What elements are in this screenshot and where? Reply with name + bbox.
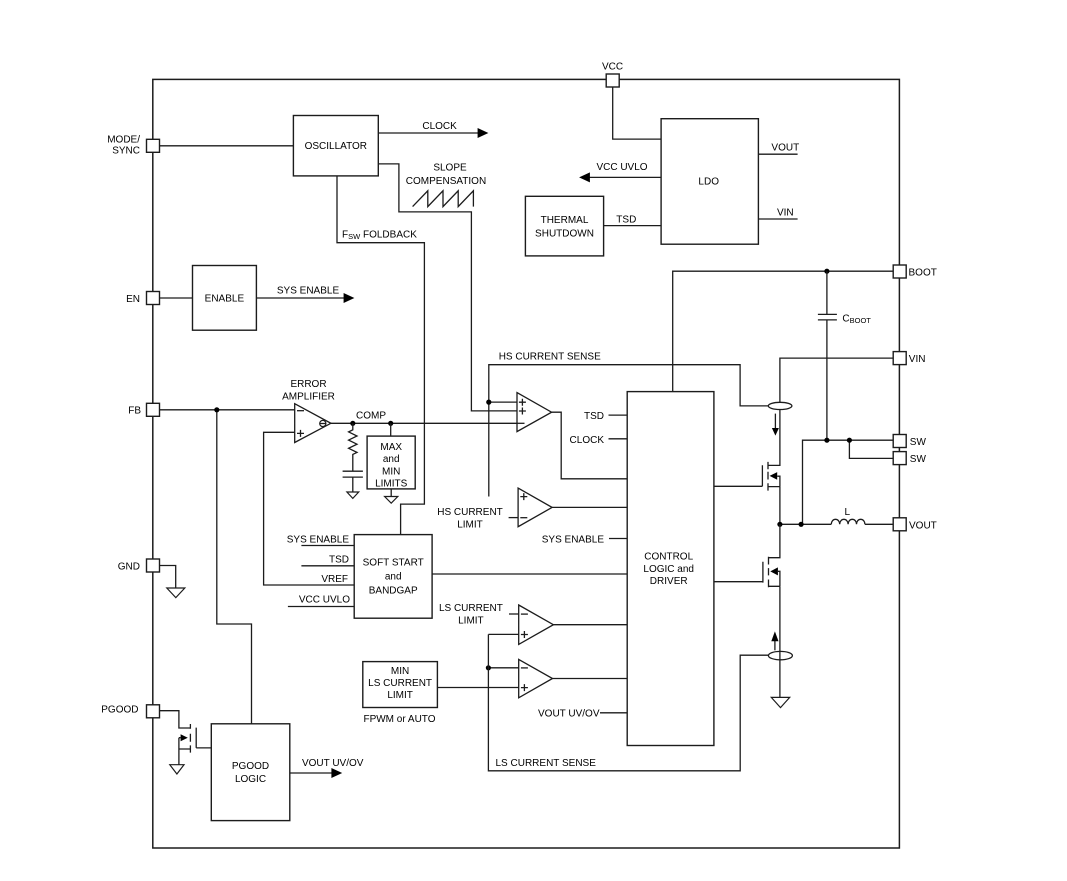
- svg-text:COMP: COMP: [356, 410, 386, 421]
- wire HS current limit minus stub: [509, 517, 518, 519]
- wire LDO VIN internal: [758, 218, 797, 220]
- svg-text:CLOCK: CLOCK: [570, 435, 605, 446]
- node SW line junction: [799, 522, 804, 527]
- inductor L: [831, 519, 865, 524]
- sawtooth slope waveform: [413, 191, 474, 207]
- node HS sense junction: [486, 400, 491, 405]
- svg-text:VOUT: VOUT: [771, 143, 799, 154]
- svg-text:LS CURRENT SENSE: LS CURRENT SENSE: [496, 758, 597, 769]
- ground max min limits: [385, 497, 398, 504]
- current sensor LS ellipse: [768, 651, 792, 659]
- svg-text:CONTROL: CONTROL: [644, 551, 693, 562]
- svg-text:SW: SW: [910, 454, 927, 465]
- current sensor HS ellipse: [768, 402, 792, 409]
- svg-text:SW: SW: [910, 437, 927, 448]
- pin VIN: [893, 352, 906, 365]
- pin BOOT: [893, 265, 906, 278]
- node BOOT Cboot junction: [824, 269, 829, 274]
- wire SYS ENABLE output: [256, 297, 344, 299]
- wire CLOCK output: [378, 132, 478, 134]
- pin VOUT: [893, 518, 906, 531]
- node FB junction: [214, 407, 219, 412]
- wire PGOOD pin to transistor: [159, 711, 190, 728]
- svg-text:LIMIT: LIMIT: [458, 616, 484, 627]
- svg-text:VIN: VIN: [777, 208, 794, 219]
- svg-text:VCC: VCC: [602, 61, 623, 72]
- wire SW pin 2 line: [849, 440, 893, 458]
- wire LS current limit minus stub: [509, 613, 519, 615]
- svg-text:COMPENSATION: COMPENSATION: [406, 176, 486, 187]
- svg-text:FSW FOLDBACK: FSW FOLDBACK: [342, 229, 417, 241]
- svg-text:and: and: [385, 571, 402, 582]
- svg-text:ERROR: ERROR: [290, 379, 326, 390]
- transistor HS MOSFET: [714, 465, 763, 486]
- wire VCC UVLO input to soft start: [288, 606, 354, 608]
- svg-text:MIN: MIN: [391, 666, 409, 677]
- wire HS source to SW node: [779, 487, 781, 525]
- node COMP junction 1: [350, 421, 355, 426]
- svg-text:BANDGAP: BANDGAP: [369, 585, 418, 596]
- node COMP junction 2: [388, 421, 393, 426]
- svg-text:TSD: TSD: [329, 555, 349, 566]
- wire inductor to VOUT pin: [865, 523, 893, 525]
- svg-text:MODE/: MODE/: [107, 135, 140, 146]
- pin VCC: [606, 74, 619, 87]
- wire HS current limit output: [552, 506, 627, 508]
- pin SW 1: [893, 435, 906, 448]
- svg-text:GND: GND: [118, 561, 140, 572]
- wire SW pin 1 line: [803, 440, 894, 524]
- bubble gm symbol at error amp output: [320, 420, 326, 426]
- transistor LS MOSFET: [714, 562, 763, 583]
- oscillator OSCILLATOR box: [293, 116, 378, 176]
- box SOFT START and BANDGAP: [354, 535, 432, 619]
- wire CLOCK stub to control logic: [609, 438, 628, 440]
- svg-text:EN: EN: [126, 294, 140, 305]
- wire rail SW to LS drain: [769, 524, 780, 557]
- wire SYS ENABLE input to soft start: [301, 545, 354, 547]
- svg-text:and: and: [383, 454, 400, 465]
- box PGOOD LOGIC: [211, 724, 289, 821]
- wire SW node to inductor: [780, 523, 831, 525]
- svg-text:FB: FB: [128, 406, 141, 417]
- node Cboot SW junction: [824, 438, 829, 443]
- svg-text:LIMIT: LIMIT: [387, 690, 413, 701]
- svg-text:VCC UVLO: VCC UVLO: [596, 162, 647, 173]
- svg-text:ENABLE: ENABLE: [205, 293, 245, 304]
- svg-text:LOGIC: LOGIC: [235, 774, 266, 785]
- pin MODE/SYNC: [147, 139, 160, 152]
- ground comp network: [347, 492, 359, 498]
- svg-text:VOUT UV/OV: VOUT UV/OV: [302, 758, 364, 769]
- IC boundary frame: [153, 79, 900, 848]
- arrowhead VCC UVLO: [579, 172, 590, 182]
- svg-text:SOFT START: SOFT START: [363, 557, 424, 568]
- wire MIN LS minus input: [488, 667, 518, 669]
- svg-text:DRIVER: DRIVER: [650, 576, 688, 587]
- ground power rail: [771, 697, 789, 707]
- svg-text:TSD: TSD: [616, 215, 636, 226]
- wire TSD input to soft start: [301, 565, 354, 567]
- op-amp error amplifier: [295, 404, 331, 443]
- svg-text:MAX: MAX: [380, 442, 402, 453]
- wire COMP line from error amp to PWM comparator: [331, 422, 524, 424]
- svg-text:CLOCK: CLOCK: [422, 121, 457, 132]
- box MAX and MIN LIMITS: [367, 436, 415, 489]
- svg-text:PGOOD: PGOOD: [232, 761, 269, 772]
- svg-text:BOOT: BOOT: [909, 268, 937, 279]
- wire MIN LS output: [553, 678, 628, 680]
- wire MIN LS box to comparator plus: [437, 687, 518, 689]
- svg-text:SYS ENABLE: SYS ENABLE: [287, 534, 350, 545]
- svg-text:VREF: VREF: [321, 574, 348, 585]
- wire VCC UVLO output: [589, 176, 661, 178]
- wire Fsw foldback from oscillator to soft start: [337, 176, 424, 535]
- svg-text:LS CURRENT: LS CURRENT: [368, 678, 432, 689]
- wire soft start output to control logic: [432, 573, 627, 575]
- svg-text:CBOOT: CBOOT: [842, 314, 871, 326]
- svg-text:L: L: [845, 507, 851, 518]
- capacitor comp network: [343, 471, 363, 492]
- comparator LS current limit: [519, 605, 554, 644]
- capacitor Cboot: [818, 271, 837, 440]
- wire HS sense branch to PWM comparator: [489, 401, 518, 403]
- wire LS current limit plus input: [488, 633, 518, 635]
- node LS junction: [486, 665, 491, 670]
- wire TSD from thermal shutdown to LDO: [604, 225, 662, 227]
- node SW2 junction: [847, 438, 852, 443]
- svg-text:SYS ENABLE: SYS ENABLE: [277, 286, 340, 297]
- thermal shutdown box: [525, 196, 603, 256]
- svg-text:SHUTDOWN: SHUTDOWN: [535, 228, 594, 239]
- arrowhead SYS ENABLE: [344, 293, 355, 303]
- pin PGOOD: [147, 705, 160, 718]
- svg-text:AMPLIFIER: AMPLIFIER: [282, 391, 335, 402]
- svg-text:MIN: MIN: [382, 466, 400, 477]
- wire max min limits to ground: [390, 489, 392, 497]
- comparator HS PWM: [517, 393, 552, 432]
- wire VOUT UV/OV output arrow: [290, 772, 333, 774]
- wire GND pin to ground: [159, 566, 176, 588]
- arrowhead CLOCK: [478, 128, 489, 138]
- wire SYS ENABLE stub to control logic: [609, 538, 627, 540]
- svg-text:PGOOD: PGOOD: [101, 705, 138, 716]
- wire EN to enable block: [159, 297, 192, 299]
- svg-text:LS CURRENT: LS CURRENT: [439, 603, 503, 614]
- svg-text:VOUT UV/OV: VOUT UV/OV: [538, 709, 600, 720]
- wire HS PWM comparator output: [552, 412, 628, 479]
- svg-text:SYS ENABLE: SYS ENABLE: [542, 534, 605, 545]
- wire FB pin to error amplifier: [159, 409, 294, 411]
- wire BOOT from control logic to BOOT pin: [673, 271, 894, 391]
- pin SW 2: [893, 452, 906, 465]
- svg-text:LOGIC and: LOGIC and: [643, 564, 694, 575]
- wire rail ellipse to HS drain: [768, 410, 780, 466]
- wire LS current sense: [488, 634, 768, 770]
- ground GND pin: [167, 588, 185, 598]
- wire VOUT UV/OV stub to control logic: [600, 712, 627, 714]
- svg-text:LDO: LDO: [698, 177, 719, 188]
- svg-text:SLOPE: SLOPE: [433, 163, 467, 174]
- wire HS current sense: [489, 365, 769, 497]
- LDO box U-LDO: [661, 119, 758, 245]
- arrowhead VOUT UV/OV: [331, 768, 342, 778]
- arrow LS current direction up: [774, 641, 776, 650]
- pin GND: [147, 559, 160, 572]
- pin FB: [147, 403, 160, 416]
- wire slope compensation to PWM comparator input: [378, 164, 517, 411]
- svg-text:HS CURRENT: HS CURRENT: [437, 507, 503, 518]
- wire VIN pin to power rail: [780, 358, 894, 402]
- transistor PGOOD open drain: [189, 724, 191, 753]
- svg-text:LIMITS: LIMITS: [375, 479, 408, 490]
- wire COMP to max min limits box: [390, 423, 392, 436]
- ground PGOOD transistor: [170, 765, 184, 774]
- node SW rail junction: [777, 522, 782, 527]
- svg-text:TSD: TSD: [584, 411, 604, 422]
- svg-text:SYNC: SYNC: [112, 146, 140, 157]
- svg-text:LIMIT: LIMIT: [457, 519, 483, 530]
- wire LS source to ground: [779, 586, 781, 697]
- comparator MIN LS: [519, 659, 553, 697]
- wire LDO VOUT internal: [758, 153, 797, 155]
- pin EN: [147, 292, 160, 305]
- svg-text:OSCILLATOR: OSCILLATOR: [305, 141, 367, 152]
- svg-text:THERMAL: THERMAL: [541, 215, 589, 226]
- box MIN LS CURRENT LIMIT: [363, 662, 438, 708]
- wire TSD stub to control logic: [609, 414, 628, 416]
- enable ENABLE box: [193, 266, 257, 331]
- wire MODE/SYNC to oscillator: [159, 145, 293, 147]
- svg-text:VOUT: VOUT: [909, 520, 937, 531]
- wire FB sense down to PGOOD logic: [217, 410, 252, 724]
- wire VCC pin to LDO: [613, 87, 661, 139]
- wire VREF from soft start to error amp + input: [264, 432, 355, 585]
- comparator HS current limit: [518, 488, 552, 527]
- arrow HS current direction down: [774, 414, 776, 428]
- wire LS current limit output: [553, 624, 627, 626]
- svg-text:VIN: VIN: [909, 354, 926, 365]
- svg-text:HS CURRENT SENSE: HS CURRENT SENSE: [499, 352, 601, 363]
- box CONTROL LOGIC and DRIVER: [627, 392, 714, 746]
- svg-text:FPWM or AUTO: FPWM or AUTO: [363, 714, 435, 725]
- resistor comp network: [349, 423, 357, 471]
- svg-text:VCC UVLO: VCC UVLO: [299, 595, 350, 606]
